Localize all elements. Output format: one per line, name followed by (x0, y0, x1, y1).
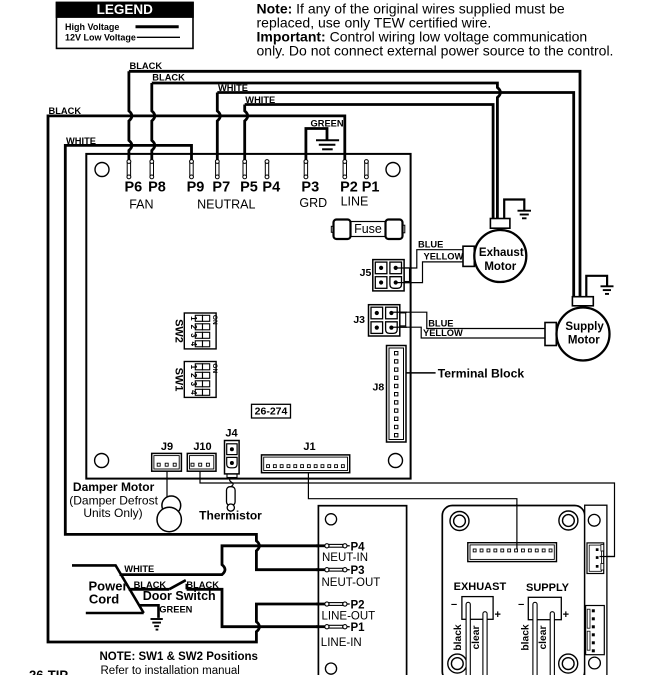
svg-text:black: black (453, 624, 464, 651)
svg-text:GREEN: GREEN (159, 605, 192, 615)
svg-text:BLACK: BLACK (49, 106, 82, 116)
wire white P9 neutral loop to NEUT-OUT terminal (65, 145, 324, 569)
svg-text:BLUE: BLUE (418, 239, 443, 249)
power board mounting hole top-left (450, 512, 469, 531)
main board mounting hole bottom-left (95, 454, 109, 468)
svg-text:clear: clear (471, 625, 482, 649)
svg-text:J10: J10 (193, 441, 211, 453)
right panel 6-pin connector (586, 606, 605, 655)
supply motor M2 (545, 297, 610, 361)
svg-text:Thermistor: Thermistor (199, 509, 262, 523)
svg-text:ON: ON (211, 363, 218, 373)
wire blue J3 to supply motor (392, 312, 546, 328)
wire J9 to damper motor (166, 471, 168, 497)
wire stub into terminal P2 (316, 603, 325, 606)
wire blue J5 to exhaust motor (396, 250, 464, 268)
wire stub yellow J5 (396, 282, 412, 284)
wire stub J10 into right panel connector (600, 556, 616, 558)
svg-text:4: 4 (189, 390, 198, 395)
door switch lever (169, 580, 186, 589)
svg-text:SW2: SW2 (173, 319, 185, 343)
wire black P2 line loop to LINE-OUT terminal (48, 116, 345, 642)
svg-text:NEUT-OUT: NEUT-OUT (322, 577, 381, 589)
part number label 26-274 (252, 404, 291, 418)
svg-text:NEUTRAL: NEUTRAL (197, 198, 255, 212)
connector J4 (225, 427, 240, 477)
svg-text:P2: P2 (340, 180, 358, 196)
svg-text:26-274: 26-274 (255, 406, 288, 418)
svg-text:P4: P4 (262, 180, 280, 196)
pin P6 (127, 160, 131, 179)
wire black P8 to exhaust motor (high voltage) (152, 83, 155, 161)
connector J3 (353, 305, 405, 336)
svg-text:P8: P8 (148, 180, 166, 196)
damper motor symbol (157, 496, 181, 532)
svg-text:2: 2 (189, 325, 198, 330)
connector J9 (152, 441, 182, 471)
svg-text:12V Low Voltage: 12V Low Voltage (65, 32, 136, 42)
right edge panel (585, 505, 607, 675)
svg-text:–: – (518, 599, 524, 611)
svg-text:P7: P7 (212, 180, 230, 196)
right panel 3-pin connector (587, 543, 604, 574)
svg-text:26-TIP: 26-TIP (29, 668, 68, 675)
wire green power cord to ground (139, 605, 159, 618)
svg-text:3: 3 (189, 382, 198, 387)
svg-text:P5: P5 (240, 180, 258, 196)
legend low-voltage sample line (137, 36, 180, 38)
svg-text:SW1: SW1 (173, 368, 185, 392)
connector J1 (262, 441, 350, 473)
svg-text:J4: J4 (225, 427, 238, 439)
svg-text:Supply: Supply (565, 321, 604, 333)
pin P5 (243, 160, 247, 179)
svg-text:+: + (563, 609, 569, 621)
legend box (57, 2, 194, 48)
wire J1 to power board connector (308, 467, 517, 543)
svg-text:J1: J1 (303, 441, 315, 453)
svg-text:P1: P1 (351, 622, 366, 634)
svg-text:LINE-IN: LINE-IN (321, 637, 362, 649)
wire green P3 to ground (306, 129, 327, 162)
exhaust wire clear (483, 612, 487, 675)
power board mounting hole top-right (559, 511, 578, 530)
svg-text:Exhaust: Exhaust (479, 247, 524, 259)
terminal board mounting hole top (325, 514, 336, 525)
note text block (257, 1, 614, 59)
right panel hole top (588, 514, 600, 526)
ground symbol at P3 (green) (316, 140, 339, 149)
svg-text:P1: P1 (362, 180, 380, 196)
svg-text:4: 4 (189, 342, 198, 347)
connector J5 (360, 260, 410, 291)
svg-text:Motor: Motor (484, 261, 516, 273)
svg-text:P6: P6 (125, 180, 143, 196)
main board mounting hole top-right (386, 163, 400, 177)
right panel hole bottom (589, 657, 601, 669)
svg-text:Cord: Cord (89, 591, 119, 606)
supply motor ground wire (586, 276, 607, 297)
wire stub into terminal P3 (316, 568, 325, 571)
pin P7 (215, 160, 219, 179)
wire stub J1 into power board connector (516, 504, 518, 549)
pin P4 (265, 160, 269, 179)
wire black P6 to supply motor (high voltage) (129, 71, 132, 161)
power cord jacket (72, 565, 144, 613)
terminal P2 (325, 602, 350, 606)
svg-text:WHITE: WHITE (66, 136, 96, 146)
legend high-voltage sample line (136, 25, 179, 28)
pin P9 (190, 160, 194, 179)
svg-text:J9: J9 (161, 441, 173, 453)
wire yellow J3 to supply motor (392, 327, 546, 338)
main control board (86, 154, 410, 479)
svg-text:High Voltage: High Voltage (65, 22, 119, 32)
supply output connector (528, 597, 561, 619)
wire stub yellow J3 (392, 326, 407, 328)
terminal board (line voltage) (318, 506, 406, 675)
svg-text:1: 1 (189, 365, 198, 370)
wire white P7 to supply motor (high voltage) (217, 93, 220, 162)
fuse F1 (331, 220, 405, 240)
svg-text:J8: J8 (373, 382, 385, 394)
ground symbol at power cord (green) (151, 619, 163, 630)
svg-text:3: 3 (189, 333, 198, 338)
svg-text:BLACK: BLACK (130, 61, 163, 71)
main board mounting hole bottom-right (389, 454, 403, 468)
svg-text:only. Do not connect external: only. Do not connect external power sour… (257, 42, 614, 58)
svg-text:–: – (451, 599, 457, 611)
svg-text:BLACK: BLACK (152, 73, 185, 83)
svg-text:BLUE: BLUE (428, 318, 453, 328)
svg-text:2: 2 (189, 373, 198, 378)
svg-text:P9: P9 (187, 180, 205, 196)
wire stub blue J3 (392, 311, 407, 313)
power board connector strip (468, 543, 557, 562)
svg-text:+: + (494, 609, 500, 621)
power board (exhaust/supply) (442, 506, 584, 675)
svg-text:Units Only): Units Only) (83, 506, 142, 520)
wire black door switch to LINE-IN terminal (187, 589, 324, 626)
terminal board mounting hole bottom (325, 663, 336, 674)
svg-text:NOTE: SW1 & SW2 Positions: NOTE: SW1 & SW2 Positions (100, 651, 258, 663)
supply wire black (533, 602, 537, 675)
svg-text:Damper Motor: Damper Motor (73, 480, 155, 494)
svg-text:YELLOW: YELLOW (423, 328, 463, 338)
wire white P5 to exhaust motor (high voltage) (245, 105, 248, 162)
svg-text:Refer to installation manual: Refer to installation manual (101, 665, 240, 675)
svg-text:WHITE: WHITE (218, 83, 248, 93)
pin P3 (304, 160, 308, 179)
wire white power cord to NEUT-IN terminal (120, 546, 324, 575)
svg-text:Fuse: Fuse (354, 222, 382, 236)
wire black power cord to door switch (129, 588, 170, 591)
exhaust motor M1 (463, 219, 526, 283)
svg-text:Terminal Block: Terminal Block (438, 366, 525, 380)
svg-text:LEGEND: LEGEND (97, 2, 154, 17)
svg-text:LINE: LINE (341, 194, 369, 208)
wire J10 to right panel connector (200, 471, 615, 557)
dip switch SW1 (173, 362, 218, 398)
main board mounting hole top-left (95, 163, 109, 177)
svg-text:black: black (521, 624, 532, 651)
terminal P4 (325, 544, 350, 548)
wire stub blue J5 (396, 267, 412, 269)
svg-text:Door Switch: Door Switch (143, 589, 216, 603)
exhaust output connector (462, 597, 493, 620)
svg-text:J3: J3 (353, 314, 365, 326)
svg-text:ON: ON (211, 315, 218, 325)
ground symbol at supply motor (601, 286, 614, 294)
terminal P1 (325, 625, 350, 629)
power board mounting hole bottom-left (448, 654, 467, 673)
wire stub into terminal P1 (316, 625, 325, 628)
svg-text:GRD: GRD (299, 196, 327, 210)
exhaust motor ground wire (504, 200, 524, 219)
connector J10 (187, 441, 216, 471)
svg-text:P3: P3 (351, 565, 365, 577)
power board mounting hole bottom-right (559, 654, 578, 673)
supply wire clear (550, 612, 554, 675)
pin P1 (365, 160, 369, 179)
svg-text:Motor: Motor (568, 335, 600, 347)
pin P2 (343, 160, 347, 179)
svg-text:clear: clear (538, 625, 549, 649)
wire yellow J5 to exhaust motor (396, 262, 464, 283)
wire stub into terminal P4 (316, 544, 325, 547)
svg-text:WHITE: WHITE (245, 95, 275, 105)
svg-text:P3: P3 (301, 180, 319, 196)
svg-text:LINE-OUT: LINE-OUT (322, 611, 376, 623)
svg-text:EXHUAST: EXHUAST (454, 581, 507, 593)
svg-text:YELLOW: YELLOW (424, 252, 464, 262)
svg-text:SUPPLY: SUPPLY (526, 582, 570, 594)
svg-text:NEUT-IN: NEUT-IN (322, 552, 368, 564)
thermistor (227, 478, 236, 512)
svg-text:WHITE: WHITE (124, 564, 154, 574)
svg-text:1: 1 (189, 316, 198, 321)
pin labels P6 P8 P9 P7 P5 P4 P3 P2 P1 (125, 180, 380, 196)
exhaust wire black (466, 602, 470, 675)
svg-text:GREEN: GREEN (311, 118, 344, 128)
terminal P3 (325, 568, 350, 572)
svg-text:FAN: FAN (129, 198, 153, 212)
terminal block J8 (373, 346, 406, 443)
terminal block pointer line (406, 372, 436, 374)
dip switch SW2 (173, 313, 218, 349)
pin P8 (150, 160, 154, 179)
ground symbol at exhaust motor (518, 211, 532, 219)
svg-text:J5: J5 (360, 267, 372, 279)
